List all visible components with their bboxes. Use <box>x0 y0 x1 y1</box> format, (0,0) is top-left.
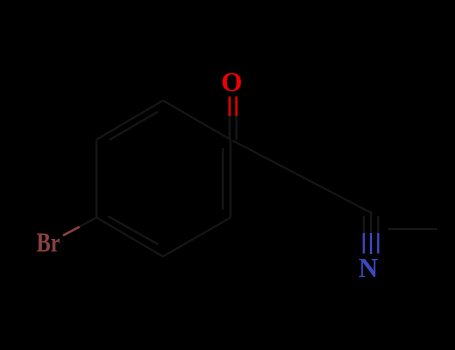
wire chain C(=O)-CH2-C <box>233 141 371 213</box>
wire ring edge LL-UL <box>96 140 98 218</box>
bond C-Br (dark red half near Br) <box>63 227 80 236</box>
aromatic inner line UR-LR <box>222 148 224 210</box>
wire ring edge T-UR <box>163 101 231 140</box>
nitrile triple bond C#N (gray half) <box>364 211 378 234</box>
aromatic inner line UL-T <box>110 112 158 140</box>
nitrile triple bond C#N (blue half near N) <box>364 233 378 254</box>
svg-text:Br: Br <box>37 228 61 258</box>
wire ring edge UR-LR <box>230 140 232 218</box>
wire ring edge B-LL <box>97 218 164 257</box>
carbonyl C=O double bond (red half near O) <box>230 97 237 117</box>
wire ring edge UL-T <box>97 101 164 140</box>
svg-text:O: O <box>221 67 242 97</box>
benzene ring C1..C6 <box>97 101 231 257</box>
carbonyl C=O double bond (lower gray half) <box>230 116 237 141</box>
svg-text:N: N <box>359 253 379 283</box>
bond C-Br (gray half) <box>80 218 97 227</box>
wire short horizontal bond at right <box>388 228 437 230</box>
wire ring edge LR-B <box>163 218 231 257</box>
aromatic inner line B-LL <box>108 216 158 244</box>
